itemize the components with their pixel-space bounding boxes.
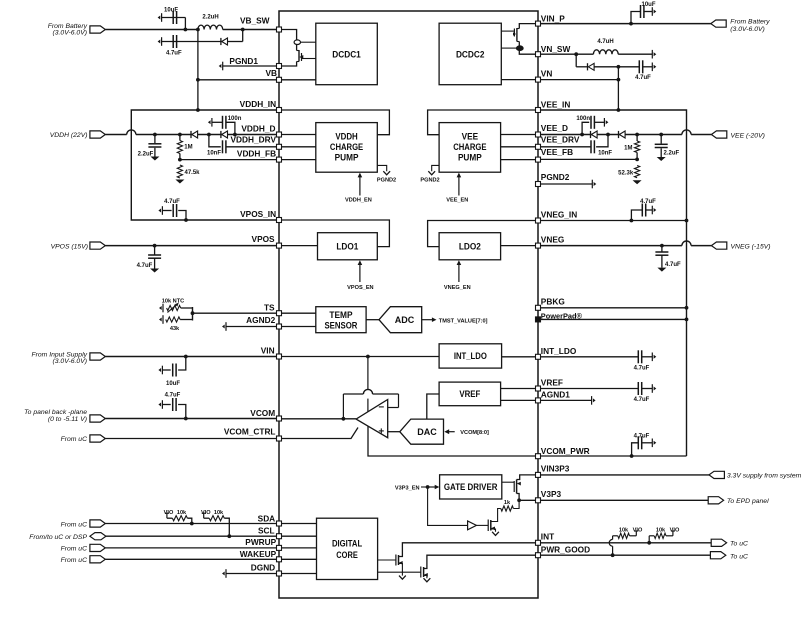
VIO rail tick 2: [202, 513, 206, 518]
junction battery/C2: [196, 28, 200, 32]
block DAC: [400, 419, 444, 444]
junction VDDH_IN tap: [196, 108, 200, 112]
value 4.7uF C7: [137, 263, 153, 269]
label VDDH (22V): [50, 132, 88, 139]
ground chevron Q3: [492, 532, 499, 536]
pin label VCOM_CTRL: [224, 427, 276, 437]
wire WAKEUP: [105, 558, 276, 560]
enable arrow VNEG_EN: [457, 260, 462, 282]
wire VB: [198, 79, 277, 81]
wire DAC to opamp +: [388, 431, 400, 433]
block VREF: [439, 382, 501, 406]
junction VIN_P/C10: [629, 22, 633, 26]
pin INT_LDO: [536, 354, 541, 359]
capacitor C15 4.7uF: [642, 204, 645, 217]
pin label VPOS_IN: [240, 209, 276, 219]
connector To uC (INT): [711, 539, 726, 546]
wire VDDH_DRV: [226, 146, 277, 148]
wire Q3 source: [491, 529, 496, 532]
label VCOM[8:0]: [460, 430, 489, 436]
wire VDDH_FB into block: [282, 159, 316, 161]
enable arrow VDDH_EN: [358, 173, 363, 196]
ground C16: [657, 268, 666, 272]
svg-text:VNEG (-15V): VNEG (-15V): [731, 243, 771, 250]
diode D3: [221, 131, 228, 138]
svg-text:100n: 100n: [228, 116, 242, 122]
capacitor C6 4.7uF: [173, 204, 176, 217]
svg-text:TS: TS: [264, 302, 275, 312]
wire R8 vertical with hop: [609, 536, 618, 555]
pin label VCOM: [250, 408, 275, 418]
wire SCL into digital core: [282, 535, 317, 537]
pin VB: [277, 77, 282, 82]
ground arrow NTC: [159, 304, 163, 313]
connector VCOM: [90, 415, 105, 422]
value 100n C5: [228, 116, 242, 122]
value 10k R9: [656, 528, 666, 534]
junction VPOS/C7: [153, 244, 157, 248]
wire VDDH with hop: [105, 130, 276, 135]
ground chevron Q5: [399, 576, 406, 580]
connector VPOS: [90, 242, 105, 249]
wire Q5 source: [399, 564, 403, 576]
value 1M R6: [624, 146, 632, 152]
wire tick2 to R4: [204, 517, 210, 519]
value 4.7uF C17: [634, 366, 650, 372]
wire VCOM_CTRL to opamp: [282, 428, 359, 439]
wire VEE_IN into charge pump: [428, 110, 536, 135]
pin VIN_P: [536, 21, 541, 26]
pin PGND2: [536, 182, 541, 187]
wire VN into DCDC2: [501, 79, 535, 81]
pin label VNEG: [541, 235, 565, 245]
VIO rail tick R9: [666, 531, 675, 536]
svg-text:1k: 1k: [504, 500, 511, 506]
wire VCOM to opamp output: [282, 418, 357, 420]
label To uC PWR_GOOD: [730, 554, 748, 561]
value VIO pullup2: [201, 510, 211, 516]
wire TS into temp sensor: [282, 312, 316, 314]
pin VCOM: [277, 416, 282, 421]
ground arrow C9: [158, 400, 162, 409]
svg-text:4.7uF: 4.7uF: [640, 199, 656, 205]
svg-text:4.7uF: 4.7uF: [137, 263, 153, 269]
wire VDDH_IN left loop: [131, 110, 276, 220]
svg-text:43k: 43k: [170, 326, 180, 332]
svg-text:4.7uF: 4.7uF: [634, 366, 650, 372]
junction 2.2uF tap right: [659, 133, 663, 137]
transistor Q4 PMOS: [514, 480, 521, 494]
wire 100n branch: [226, 122, 235, 134]
pin VN_SW: [536, 52, 541, 57]
ground arrow C19: [652, 439, 656, 448]
wire SDA into digital core: [282, 523, 317, 525]
svg-text:3.3V supply from system: 3.3V supply from system: [727, 473, 802, 480]
wire V3P3 out: [541, 499, 709, 501]
label To uC INT: [730, 541, 748, 548]
pin label TS: [264, 302, 275, 312]
transistor Q5 NMOS (INT): [396, 555, 403, 566]
svg-text:4.7uF: 4.7uF: [164, 199, 180, 205]
pin VNEG: [536, 243, 541, 248]
svg-text:From uC: From uC: [61, 436, 88, 443]
enable arrow VEE_EN: [457, 173, 462, 196]
wire PGND2 stub VEE CP: [432, 165, 439, 171]
svg-text:DCDC1: DCDC1: [332, 50, 361, 60]
wire VCOM_PWR to rail: [541, 455, 687, 457]
diode D1: [221, 38, 228, 45]
wire VIN3P3: [541, 474, 710, 476]
diode D5: [591, 131, 598, 138]
svg-text:2.2uF: 2.2uF: [664, 151, 680, 157]
wire Q5 gate: [378, 559, 396, 561]
TS network bar: [192, 307, 194, 321]
wire VIN: [105, 356, 276, 358]
svg-text:VCOM_PWR: VCOM_PWR: [541, 446, 590, 456]
wire Q8-Q9 channel: [518, 42, 520, 46]
pin label DGND: [251, 562, 275, 572]
junction VB tap: [196, 78, 200, 82]
connector From Battery (right): [711, 20, 726, 27]
pin label WAKEUP: [240, 549, 277, 559]
svg-text:4.7uF: 4.7uF: [665, 262, 681, 268]
value 4.7uF C16: [665, 262, 681, 268]
value VIO R9: [670, 528, 680, 534]
svg-text:VCOM[8:0]: VCOM[8:0]: [460, 430, 489, 436]
value 43k: [170, 326, 180, 332]
svg-text:PGND2: PGND2: [377, 178, 396, 184]
wire opamp supply vertical: [367, 357, 369, 412]
ground arrow C18: [652, 384, 656, 393]
junction VN_SW: [574, 52, 578, 56]
label PGND2 (VDDH CP): [377, 178, 396, 184]
wire VN: [541, 79, 619, 81]
wire VB into DCDC1: [282, 79, 316, 81]
svg-text:WAKEUP: WAKEUP: [240, 549, 277, 559]
label (3.0V-6.0V) vin: [52, 358, 87, 365]
capacitor C4 10nF: [223, 140, 226, 153]
svg-text:VEE_EN: VEE_EN: [446, 198, 468, 204]
label From uC (WAKEUP): [61, 557, 88, 564]
wire VN vertical: [617, 67, 619, 110]
capacitor C8 10uF: [173, 364, 176, 377]
wire R6 lead: [636, 135, 638, 142]
arrow TMST output: [422, 317, 437, 322]
pin TS: [277, 311, 282, 316]
wire 10nF branch right: [596, 135, 608, 147]
pin VIN: [277, 354, 282, 359]
svg-text:VEE (-20V): VEE (-20V): [731, 132, 765, 139]
block INT_LDO: [439, 344, 502, 368]
value 10uF C8: [166, 381, 180, 387]
svg-text:VEE_DRV: VEE_DRV: [541, 134, 580, 144]
junction VNEG_IN/C15: [630, 219, 634, 223]
svg-text:VN: VN: [541, 69, 553, 79]
svg-text:4.7uF: 4.7uF: [634, 434, 650, 440]
svg-text:VEE: VEE: [462, 132, 479, 142]
transistor Q2 NMOS: [297, 50, 304, 62]
wire C14 lead: [660, 135, 662, 144]
pin label VDDH_IN: [240, 99, 276, 109]
pin label VEE_IN: [541, 100, 571, 110]
wire VIN_P: [541, 23, 711, 25]
value 4.7uF C2: [166, 51, 182, 57]
value 10nF C4: [207, 150, 221, 156]
svg-text:To uC: To uC: [730, 541, 748, 548]
capacitor C14 2.2uF: [655, 144, 668, 147]
wire tick1 to R3: [167, 517, 173, 519]
resistor R2 47.5k: [177, 165, 182, 178]
pin VDDH_IN: [277, 108, 282, 113]
wire VDDH_DRV into block: [282, 146, 316, 148]
wire buffer to Q3 gate: [476, 524, 488, 526]
label VNEG_EN: [444, 285, 471, 291]
label From Battery right: [730, 18, 770, 25]
svg-text:4.7uF: 4.7uF: [166, 51, 182, 57]
wire VNEG_IN: [541, 220, 687, 222]
junction rail/VNEG_IN: [685, 219, 689, 223]
svg-text:LDO2: LDO2: [459, 242, 481, 252]
connector From Battery (left): [90, 26, 105, 33]
rail arrow VN_SW: [652, 50, 656, 59]
svg-text:LDO1: LDO1: [336, 242, 358, 252]
pin AGND2: [277, 324, 282, 329]
pin PGND1: [277, 64, 282, 69]
junction VCOM_PWR/C19: [630, 454, 634, 458]
wire R3 to SDA: [187, 518, 191, 523]
wire Q9 to VN_SW: [519, 51, 535, 55]
svg-text:VPOS (15V): VPOS (15V): [51, 243, 88, 250]
wire C1 lead: [162, 17, 186, 19]
svg-text:CHARGE: CHARGE: [453, 142, 486, 152]
wire SCL: [106, 535, 277, 537]
wire D4 line: [576, 66, 587, 68]
ground arrow C1: [158, 13, 162, 22]
ground R7: [633, 180, 642, 184]
ground arrow C8: [158, 366, 162, 375]
svg-text:V3P3: V3P3: [541, 489, 562, 499]
wire VEE_DRV: [541, 146, 592, 148]
wire PowerPad: [541, 318, 687, 320]
wire AGND2 into temp sensor: [282, 326, 316, 328]
wire VB_SW drop: [242, 30, 244, 42]
wire inductor to VB_SW pin: [223, 29, 277, 31]
pin DGND: [277, 571, 282, 576]
svg-text:PWR_GOOD: PWR_GOOD: [541, 544, 590, 554]
junction R9/INT: [647, 541, 651, 545]
wire C9 lead: [163, 404, 171, 406]
pin VEE_IN: [536, 108, 541, 113]
svg-text:From uC: From uC: [61, 521, 88, 528]
wire Q1-Q2 channel: [296, 45, 298, 51]
wire opamp feedback: [343, 389, 398, 419]
value 4.7uF C18: [634, 397, 650, 403]
wire VIN3P3 to Q4: [517, 475, 536, 480]
label From/to uC or DSP: [29, 534, 87, 541]
svg-text:VIN3P3: VIN3P3: [541, 464, 570, 474]
label VNEG (-15V): [731, 243, 771, 250]
junction VPOS_IN/C6: [184, 218, 188, 222]
svg-text:AGND2: AGND2: [246, 315, 275, 325]
svg-text:From/to uC or DSP: From/to uC or DSP: [29, 534, 87, 541]
wire temp sensor to ADC: [366, 319, 379, 321]
pin label AGND2: [246, 315, 275, 325]
pin label VNEG_IN: [541, 210, 577, 220]
svg-text:VPOS_EN: VPOS_EN: [347, 285, 373, 291]
junction VEE_FB: [635, 158, 639, 162]
VIO rail tick 1: [165, 513, 169, 518]
svg-text:VB_SW: VB_SW: [240, 16, 270, 26]
wire TS: [193, 312, 277, 314]
pin label VEE_FB: [541, 147, 573, 157]
svg-text:To EPD panel: To EPD panel: [727, 498, 769, 505]
wire C11 lead: [643, 66, 653, 68]
pin VCOM_CTRL: [277, 436, 282, 441]
value 4.7uF C11: [635, 75, 651, 81]
pin VPOS: [277, 243, 282, 248]
svg-text:DIGITAL: DIGITAL: [332, 539, 363, 549]
label VPOS (15V): [51, 243, 88, 250]
value 4.7uF C19: [634, 434, 650, 440]
wire NTC to bar: [181, 307, 193, 309]
svg-text:From uC: From uC: [61, 557, 88, 564]
wire C10 branch: [631, 12, 640, 24]
pin INT: [536, 540, 541, 545]
block LDO1: [318, 233, 378, 260]
svg-text:PGND2: PGND2: [541, 172, 570, 182]
capacitor C13 10nF: [591, 140, 594, 153]
label From uC (PWRUP): [61, 545, 88, 552]
wire D4 to C11: [594, 66, 639, 68]
junction V3P3_EN: [426, 485, 430, 489]
value 100n C12: [576, 116, 590, 122]
connector VDDH: [90, 131, 105, 138]
svg-text:PWRUP: PWRUP: [245, 537, 276, 547]
pin PowerPad (thermal pad): [536, 317, 541, 322]
wire Q6 source: [424, 576, 427, 579]
svg-text:VDDH: VDDH: [335, 132, 357, 142]
svg-text:VIN_P: VIN_P: [541, 13, 565, 23]
svg-text:10nF: 10nF: [207, 150, 221, 156]
svg-text:From uC: From uC: [61, 545, 88, 552]
transistor Q6 NMOS (PWR_GOOD): [421, 567, 428, 578]
pin PWR_GOOD: [536, 553, 541, 558]
wire INT out: [541, 542, 712, 544]
svg-text:To uC: To uC: [730, 554, 748, 561]
wire INT_LDO out: [502, 356, 536, 358]
wire Q5 drain to INT: [399, 543, 536, 557]
junction VN tap: [617, 78, 621, 82]
capacitor C9 4.7uF: [173, 398, 176, 411]
ground arrow C5: [208, 118, 212, 127]
label From uC (VCOM_CTRL): [61, 436, 88, 443]
wire C8 lead: [163, 369, 171, 371]
svg-text:4.7uF: 4.7uF: [635, 75, 651, 81]
pin label VN: [541, 69, 553, 79]
pin WAKEUP: [277, 557, 282, 562]
capacitor C12 100n: [591, 116, 594, 129]
wire VEE_D into block: [501, 134, 536, 136]
wire VN_SW to L2: [541, 53, 594, 55]
svg-text:VEE_FB: VEE_FB: [541, 147, 573, 157]
junction 1M tap right: [635, 133, 639, 137]
pin V3P3: [536, 498, 541, 503]
svg-text:10nF: 10nF: [598, 150, 612, 156]
pin label VB_SW: [240, 16, 270, 26]
junction rail/PBKG: [685, 306, 689, 310]
svg-text:VB: VB: [265, 68, 277, 78]
label To EPD panel: [727, 498, 769, 505]
ground arrow C10: [652, 7, 656, 16]
value 1k R5: [504, 500, 511, 506]
wire AGND1 from VREF: [501, 399, 536, 401]
svg-text:CORE: CORE: [336, 550, 358, 560]
wire R1 lead: [179, 135, 181, 141]
wire DGND: [226, 573, 277, 575]
ground arrow C11: [652, 63, 656, 72]
block LDO2: [439, 233, 501, 260]
svg-text:VDDH_EN: VDDH_EN: [345, 198, 372, 204]
ground chevron PGND2 left: [383, 171, 390, 175]
wire DGND into digital core: [282, 573, 317, 575]
svg-text:4.7uF: 4.7uF: [634, 397, 650, 403]
svg-text:PGND1: PGND1: [229, 56, 258, 66]
resistor RT1 10k NTC: [167, 305, 181, 310]
wire PGND1: [223, 65, 277, 67]
label 3.3V supply from system: [727, 473, 802, 480]
ground arrow AGND1: [592, 396, 596, 405]
value 10uF C10: [641, 2, 655, 8]
wire C8 branch: [178, 357, 186, 371]
junction R4/SCL: [227, 534, 231, 538]
block GATE DRIVER: [440, 475, 502, 499]
junction 100n tap: [233, 133, 237, 137]
svg-text:VREF: VREF: [541, 377, 563, 387]
label From Input Supply: [31, 351, 87, 358]
pin label PowerPad: [541, 311, 583, 320]
svg-text:(3.0V-6.0V): (3.0V-6.0V): [730, 26, 765, 33]
pin label PWRUP: [245, 537, 276, 547]
value 10nF C13: [598, 150, 612, 156]
svg-text:10uF: 10uF: [641, 2, 655, 8]
svg-text:DCDC2: DCDC2: [456, 50, 485, 60]
wire Q9 gate: [501, 47, 516, 49]
wire Q3 drain to R5: [491, 509, 501, 522]
svg-text:4.7uF: 4.7uF: [165, 393, 181, 399]
wire INT_LDO to C17: [541, 356, 639, 358]
wire PWRUP into digital core: [282, 547, 317, 549]
wire 100n lead: [212, 121, 223, 123]
svg-text:VN_SW: VN_SW: [541, 44, 571, 54]
label VEE (-20V): [731, 132, 765, 139]
pin label VCOM_PWR: [541, 446, 590, 456]
pin PBKG: [536, 305, 541, 310]
svg-text:VDDH_FB: VDDH_FB: [237, 148, 276, 158]
junction 10nF tap right: [606, 133, 610, 137]
wire 43k to bar: [180, 319, 192, 321]
wire 10nF branch: [209, 135, 221, 147]
svg-text:INT: INT: [541, 531, 554, 541]
value 52.3k R7: [618, 170, 634, 176]
wire VREF pin to C18: [541, 388, 639, 390]
resistor R5 1k: [501, 506, 514, 511]
svg-text:ADC: ADC: [395, 315, 415, 325]
svg-text:VDDH_IN: VDDH_IN: [240, 99, 276, 109]
wire VPOS: [105, 245, 276, 247]
pin VEE_DRV: [536, 144, 541, 149]
pin label AGND1: [541, 389, 570, 399]
capacitor C5 100n: [223, 116, 226, 129]
